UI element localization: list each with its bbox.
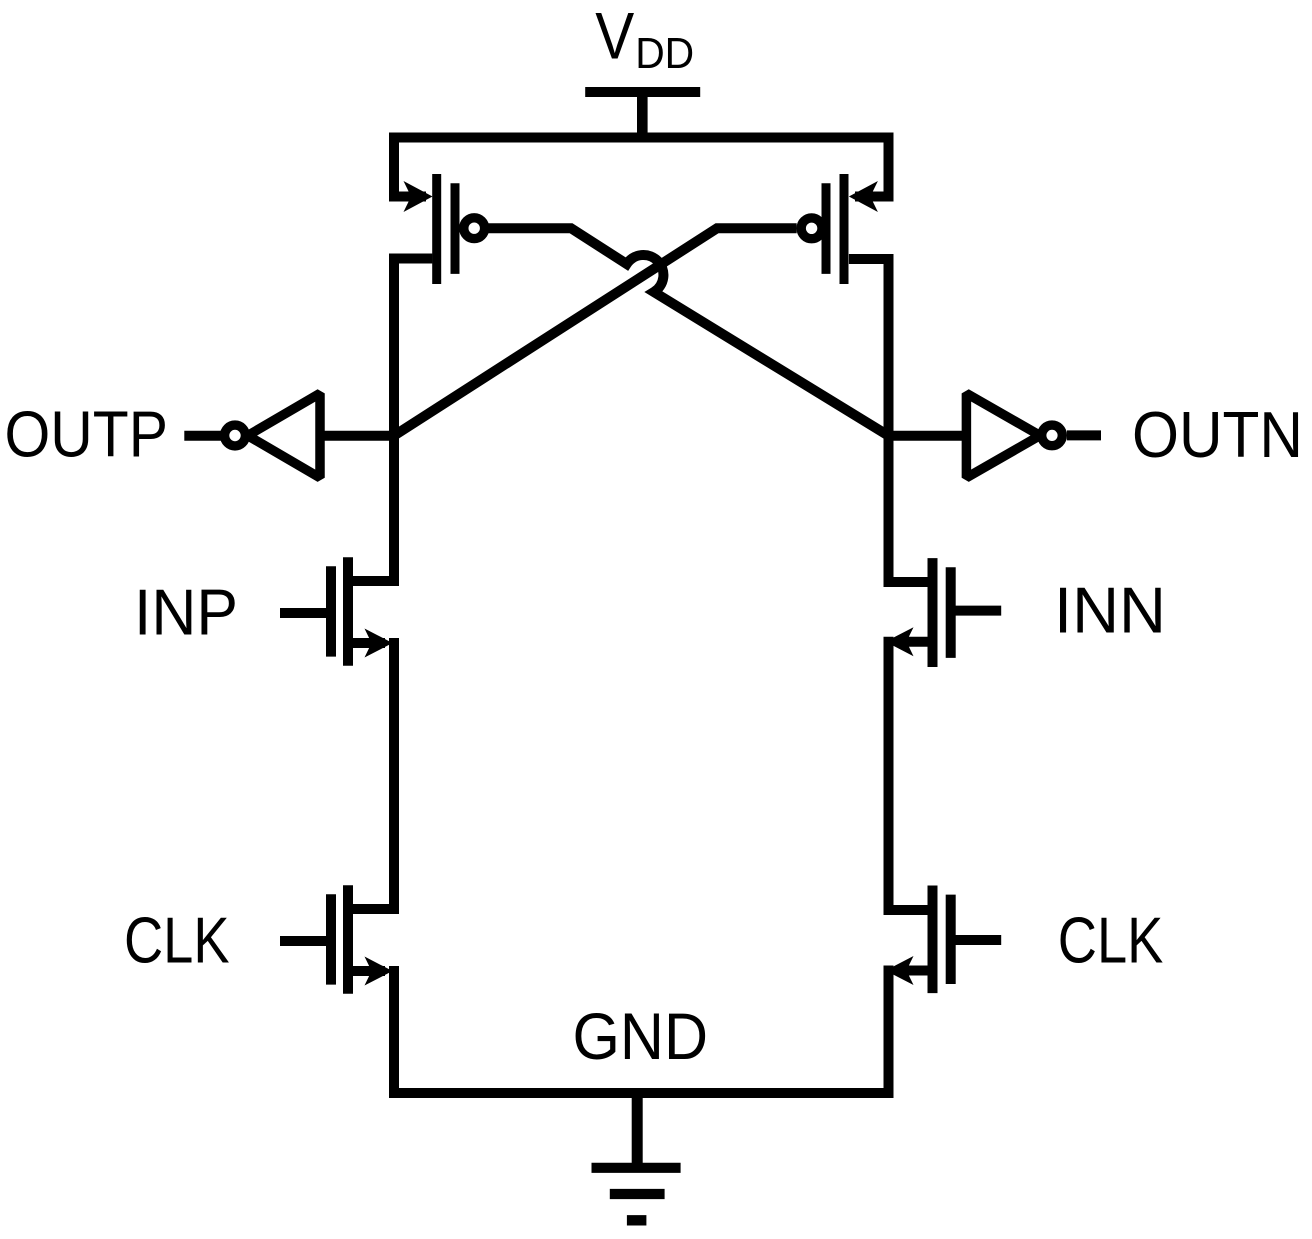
wire U1 input to left output node xyxy=(320,431,399,441)
svg-text:INN: INN xyxy=(1054,574,1166,647)
wire left rail CLK source to ground rail xyxy=(389,966,399,1098)
svg-text:DD: DD xyxy=(635,29,694,78)
wire right rail INN source to CLK drain xyxy=(884,637,894,915)
wire left drain rail (M1 drain to INP drain) xyxy=(389,254,399,587)
svg-text:CLK: CLK xyxy=(124,903,230,976)
svg-text:CLK: CLK xyxy=(1058,904,1164,977)
net label INP xyxy=(134,575,238,648)
wire cross-couple straight (M2 gate to left output node) xyxy=(394,228,797,435)
wire right rail CLK source to ground rail xyxy=(884,966,894,1099)
svg-text:INP: INP xyxy=(134,575,238,648)
transistor M1 PMOS left xyxy=(389,174,485,284)
transistor M6 NMOS CLK right xyxy=(884,886,1002,994)
transistor M5 NMOS CLK left xyxy=(280,885,399,994)
wire OUTP stub xyxy=(184,431,221,441)
inverter U2 right (output bubble) xyxy=(966,393,1062,477)
net label OUTP xyxy=(5,397,169,470)
svg-text:V: V xyxy=(595,0,634,73)
wire right output node to U2 input xyxy=(884,431,967,441)
svg-text:OUTP: OUTP xyxy=(5,397,169,470)
inverter U1 left (output bubble) xyxy=(225,393,320,477)
net label VDD xyxy=(595,0,694,78)
transistor M4 NMOS INN xyxy=(884,558,1002,667)
net label CLK right xyxy=(1058,904,1164,977)
wire cross-couple with hop (M1 gate to right output node) xyxy=(488,228,889,436)
wire left rail INP source to CLK drain xyxy=(389,638,399,914)
net label INN xyxy=(1054,574,1166,647)
net label CLK left xyxy=(124,903,230,976)
ground symbol xyxy=(592,1093,681,1220)
svg-text:GND: GND xyxy=(573,999,709,1073)
net label GND xyxy=(573,999,709,1073)
wire OUTN stub xyxy=(1067,430,1101,440)
svg-text:OUTN: OUTN xyxy=(1132,398,1303,471)
net label OUTN xyxy=(1132,398,1303,471)
wire VDD top rail xyxy=(394,138,889,202)
wire bottom ground rail xyxy=(389,1088,894,1098)
transistor M2 PMOS right xyxy=(801,174,893,284)
wire right drain rail (M2 drain to INN drain) xyxy=(884,254,894,587)
transistor M3 NMOS INP xyxy=(280,557,399,666)
power symbol VDD xyxy=(585,92,700,138)
